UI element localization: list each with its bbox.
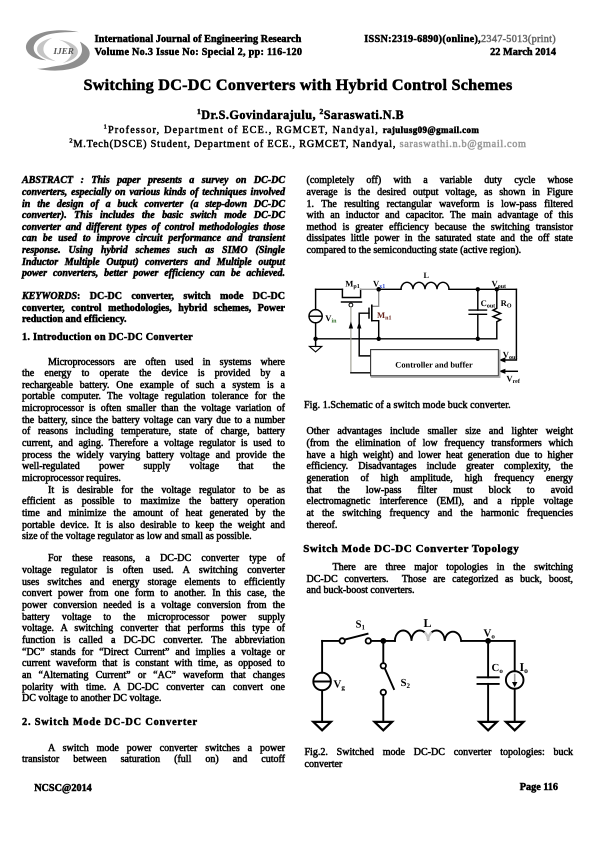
paragraph 4 xyxy=(22,743,285,766)
authors xyxy=(3,109,596,122)
wire Mn1 source xyxy=(372,321,379,339)
voltage source Vin xyxy=(315,289,317,309)
node junction dot (Vin bottom) xyxy=(313,337,317,341)
wire top rail right xyxy=(449,288,516,290)
title xyxy=(0,77,596,95)
switch S1 contact right xyxy=(366,638,371,643)
footer right xyxy=(458,782,558,794)
caption fig 1 xyxy=(304,400,511,412)
transistor Mp1 gate bubble xyxy=(349,303,353,307)
node junction dot (S2 top) xyxy=(380,638,386,644)
paragraph 3 xyxy=(22,553,285,705)
inductor L xyxy=(395,631,461,641)
right paragraph 3 xyxy=(307,562,574,597)
resistor RO xyxy=(493,289,501,339)
wire S2 to ground xyxy=(382,695,384,721)
current source Io xyxy=(514,641,516,671)
ground (Co) xyxy=(479,722,497,730)
caption fig 2 xyxy=(305,747,574,770)
svg-text:Vin: Vin xyxy=(325,313,337,325)
FIGURE 2 : buck converter topology xyxy=(305,610,540,735)
wire Mn1 gate lead xyxy=(359,313,371,356)
node junction dot (Cout bottom) xyxy=(476,337,480,341)
controller and buffer box xyxy=(371,350,499,376)
keywords xyxy=(22,291,285,326)
svg-text:S2: S2 xyxy=(401,677,411,690)
ground (Vg) xyxy=(313,722,331,730)
header right xyxy=(340,34,556,59)
right paragraph 2 xyxy=(307,426,574,531)
switch S2 contact top xyxy=(381,663,386,668)
header left xyxy=(95,34,303,59)
wire top rail left xyxy=(322,640,339,642)
switch S1 blade xyxy=(345,634,368,640)
wire feedback right side xyxy=(504,289,516,360)
svg-text:Mp1: Mp1 xyxy=(345,279,359,291)
heading 1 xyxy=(22,332,285,344)
voltage source Vg xyxy=(321,641,323,673)
capacitor Cout xyxy=(477,289,479,310)
inductor L gray dip artifact xyxy=(425,633,430,641)
heading 2 xyxy=(22,717,285,729)
switch S2 wire from node xyxy=(382,641,384,663)
svg-text:Io: Io xyxy=(520,660,529,675)
svg-text:L: L xyxy=(424,616,432,630)
abstract xyxy=(22,175,285,280)
switch S1 contact left xyxy=(340,638,345,643)
svg-text:Cout: Cout xyxy=(481,298,496,310)
capacitor Co xyxy=(487,641,489,677)
wire bottom rail xyxy=(316,338,497,340)
arrow up on Mp1 gate wire xyxy=(349,322,353,329)
transistor Mp1 gate plate xyxy=(342,301,362,303)
journal logo IJER xyxy=(25,28,91,73)
svg-text:Vout: Vout xyxy=(503,349,518,361)
switch S2 contact bottom xyxy=(381,690,386,695)
ground (S2) xyxy=(375,722,393,730)
node Vx1 junction dot xyxy=(377,287,381,291)
footer left xyxy=(34,783,92,795)
wire top rail right xyxy=(461,640,515,642)
svg-text:Vg: Vg xyxy=(334,679,346,692)
node Vo junction dot xyxy=(485,638,491,644)
wire Vref input xyxy=(504,370,517,372)
wire top rail to node xyxy=(371,640,395,642)
switch S2 blade xyxy=(385,668,394,689)
heading 3 xyxy=(303,544,573,556)
inductor L xyxy=(401,282,449,289)
arrow up on Mn1 gate wire xyxy=(357,322,361,329)
transistor Mp1 (PMOS source-drain path) xyxy=(342,289,360,297)
right paragraph 1 xyxy=(307,175,574,257)
svg-text:IJER: IJER xyxy=(53,46,74,56)
node junction dot (Cout top) xyxy=(476,287,480,291)
wire top rail left xyxy=(316,288,343,290)
wire Mp1 gate drive (gray) xyxy=(350,307,352,373)
transistor Mn1 gate bar xyxy=(368,308,370,318)
svg-text:L: L xyxy=(424,271,430,280)
node junction dot (Mn1 source at rail) xyxy=(377,337,381,341)
FIGURE 1 : schematic of switch mode buck converter xyxy=(300,268,530,388)
ground xyxy=(315,339,317,347)
svg-text:S1: S1 xyxy=(356,619,366,632)
svg-text:Vo: Vo xyxy=(484,628,496,641)
wire Mp1 gate to controller xyxy=(351,372,372,374)
node Vx1 junction dot (overdraw) xyxy=(377,287,381,291)
arrow Vref into controller xyxy=(499,369,506,374)
wire Vx1 top rail xyxy=(361,288,379,290)
ground (Io) xyxy=(506,722,524,730)
svg-text:Mn1: Mn1 xyxy=(377,310,391,322)
transistor Mn1 drain wire (gray) xyxy=(372,289,379,306)
paragraphs 1+2 xyxy=(22,357,285,544)
svg-text:Controller and buffer: Controller and buffer xyxy=(395,360,473,369)
svg-text:RO: RO xyxy=(501,298,512,310)
arrow Vout into controller xyxy=(499,357,506,362)
svg-text:Vout: Vout xyxy=(492,278,507,290)
svg-text:Co: Co xyxy=(492,662,504,675)
transistor Mn1 channel bar xyxy=(371,305,373,320)
node Vout junction dot xyxy=(495,287,499,291)
svg-text:Vref: Vref xyxy=(506,374,520,386)
